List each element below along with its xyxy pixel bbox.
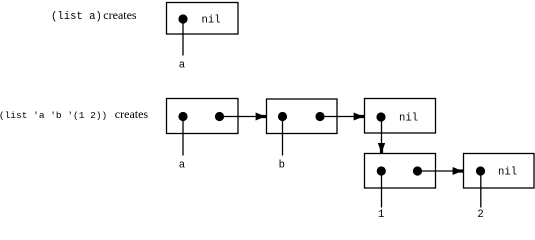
svg-text:nil: nil — [498, 167, 517, 179]
cons cell box B5 — [464, 154, 535, 189]
cdr dot B1 — [215, 112, 224, 121]
svg-text:a: a — [179, 160, 185, 172]
cons cell box B4 — [365, 154, 436, 189]
car dot B5 — [476, 166, 485, 175]
car dot B3 — [376, 112, 385, 121]
wire from dot A down to label a — [182, 19, 184, 56]
wire from B1 car dot down to label a — [182, 117, 184, 156]
svg-text:creates: creates — [103, 8, 137, 22]
svg-text:nil: nil — [399, 113, 418, 125]
cdr dot B4 — [413, 166, 422, 175]
arrow B3 car down to box B4 — [378, 117, 385, 153]
cons cell box B3 — [365, 99, 436, 134]
arrow B4 cdr to box B5 — [418, 167, 464, 175]
cons cell box B2 — [267, 99, 338, 134]
svg-text:1: 1 — [378, 209, 384, 217]
arrow B1 cdr to box B2 — [220, 113, 267, 121]
cons cell box B1 — [167, 99, 239, 134]
svg-text:(list a): (list a) — [51, 11, 102, 23]
car dot B4 — [377, 166, 386, 175]
svg-text:b: b — [279, 160, 285, 172]
cons cell box A — [167, 3, 239, 35]
car dot B1 — [178, 112, 187, 121]
svg-text:2: 2 — [477, 209, 483, 217]
svg-text:a: a — [179, 60, 185, 72]
wire from B2 car dot down to label b — [282, 117, 284, 156]
svg-text:(list 'a 'b '(1 2)): (list 'a 'b '(1 2)) — [0, 110, 107, 121]
arrow B2 cdr to box B3 — [320, 113, 364, 121]
svg-text:nil: nil — [202, 15, 221, 27]
cdr dot B2 — [315, 112, 324, 121]
wire from B4 car dot down to label 1 — [381, 171, 383, 208]
wire from B5 car dot down to label 2 — [480, 171, 482, 208]
car pointer dot A — [178, 14, 187, 23]
svg-text:creates: creates — [115, 107, 149, 121]
car dot B2 — [278, 112, 287, 121]
